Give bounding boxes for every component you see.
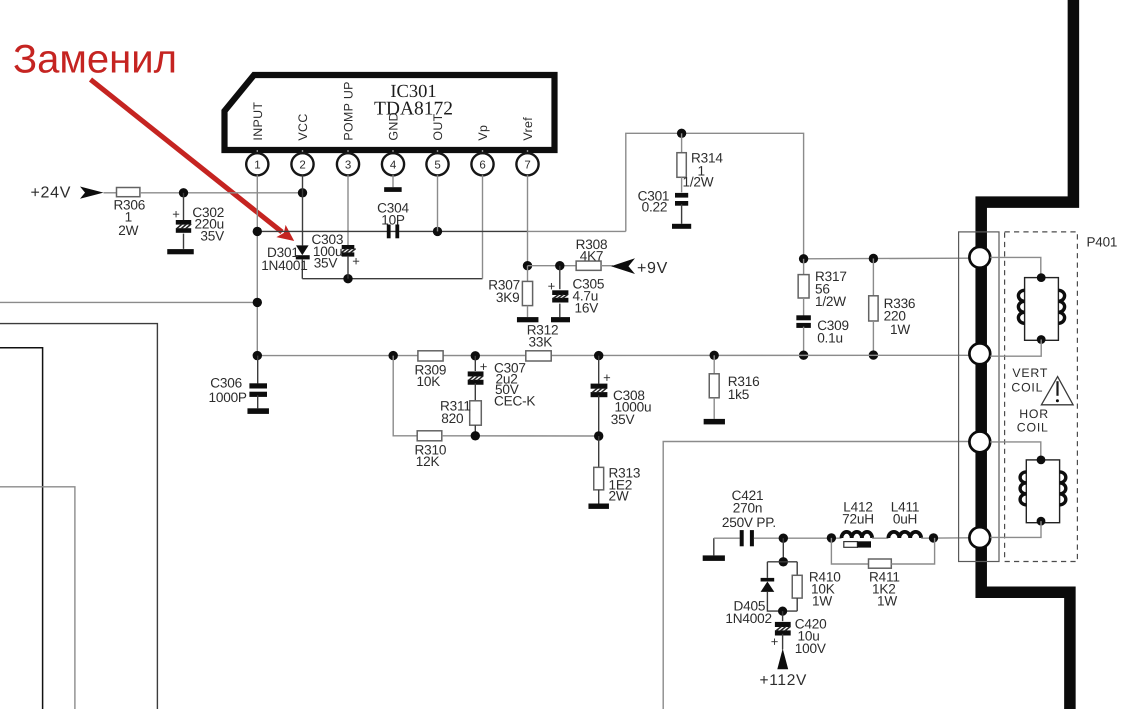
svg-text:1N4001: 1N4001 xyxy=(261,258,307,273)
svg-text:6: 6 xyxy=(479,160,485,172)
svg-text:+: + xyxy=(172,207,179,222)
wire pin2 VCC down to D301 xyxy=(302,175,304,245)
wire INPUT bus across xyxy=(257,230,527,232)
thick scan line top xyxy=(981,0,1073,709)
connector pin circle 3 xyxy=(969,432,990,453)
resistor R317 xyxy=(798,259,809,316)
ground left of C421 xyxy=(703,538,725,561)
capacitor C307 xyxy=(468,356,484,401)
svg-text:35V: 35V xyxy=(200,228,224,243)
resistor R308 xyxy=(576,261,601,270)
ground pin4 xyxy=(384,187,402,192)
node HOR coil bottom xyxy=(1037,517,1046,526)
resistor R310 xyxy=(417,431,442,441)
left partial box C xyxy=(0,487,75,709)
svg-text:0.1u: 0.1u xyxy=(817,330,843,345)
wire pin3 POMP UP down xyxy=(347,175,349,245)
svg-text:COIL: COIL xyxy=(1011,381,1043,395)
svg-text:C306: C306 xyxy=(210,376,242,391)
svg-text:Vp: Vp xyxy=(476,125,490,141)
svg-text:250V PP.: 250V PP. xyxy=(722,515,776,530)
svg-text:0.22: 0.22 xyxy=(642,199,668,214)
svg-text:+: + xyxy=(771,634,778,649)
connector pin circle 1 xyxy=(969,247,990,268)
node C303 bottom xyxy=(343,274,352,283)
connector pin circle 4 xyxy=(969,527,990,548)
node VERT coil top xyxy=(1037,273,1046,282)
capacitor C421 xyxy=(740,530,744,546)
svg-text:2W: 2W xyxy=(609,489,629,504)
resistor R312 xyxy=(526,351,551,361)
wire pin1 to VERT coil xyxy=(990,257,1041,277)
svg-text:R314: R314 xyxy=(691,151,723,166)
wire C421 to L412 xyxy=(754,537,842,539)
node C308 top xyxy=(594,351,603,360)
wire OUT up and across xyxy=(626,133,804,258)
svg-text:0uH: 0uH xyxy=(893,511,917,526)
node R311 bottom xyxy=(471,431,480,440)
ground below C306 xyxy=(247,408,269,414)
ground below R313 xyxy=(588,504,609,509)
node D405 branch xyxy=(779,534,788,543)
svg-text:1: 1 xyxy=(254,160,260,172)
wire lower divider bus xyxy=(393,356,417,436)
svg-text:+9V: +9V xyxy=(637,260,668,277)
svg-text:820: 820 xyxy=(441,411,464,426)
svg-text:2W: 2W xyxy=(118,223,138,238)
node R336 top xyxy=(869,254,878,263)
capacitor C305 xyxy=(552,266,568,317)
wire HOR coil to pin4 xyxy=(990,521,1041,537)
node VERT coil bottom xyxy=(1037,335,1046,344)
resistor R410 xyxy=(792,562,802,611)
svg-text:1k5: 1k5 xyxy=(728,387,749,402)
svg-text:5: 5 xyxy=(434,160,440,172)
svg-text:Заменил: Заменил xyxy=(13,38,177,82)
wire R306 to VCC node xyxy=(140,192,303,194)
svg-text:4K7: 4K7 xyxy=(580,248,604,263)
node R411 right branch xyxy=(929,533,938,542)
svg-text:10P: 10P xyxy=(381,212,405,227)
ground below C302 xyxy=(167,249,194,254)
node R317 top xyxy=(799,254,808,263)
svg-text:100V: 100V xyxy=(795,641,826,656)
svg-text:+: + xyxy=(480,359,487,374)
node HOR coil top xyxy=(1037,456,1046,465)
svg-text:POMP UP: POMP UP xyxy=(342,81,356,140)
yoke dashed box xyxy=(1005,232,1078,562)
pin 2 circle xyxy=(291,150,313,175)
svg-text:OUT: OUT xyxy=(431,113,445,140)
node main bus at pin1 xyxy=(253,351,262,360)
node pin1 bus tap xyxy=(253,227,262,236)
svg-text:35V: 35V xyxy=(611,412,635,427)
+9V input arrow xyxy=(611,258,635,274)
node R411 left branch xyxy=(827,533,836,542)
+24V input arrow xyxy=(80,187,104,199)
resistor R316 xyxy=(709,355,719,419)
svg-text:16V: 16V xyxy=(575,300,599,315)
svg-text:1000P: 1000P xyxy=(208,390,246,405)
svg-text:GND: GND xyxy=(387,112,401,141)
svg-text:33K: 33K xyxy=(529,334,553,349)
pin 3 circle xyxy=(337,150,359,175)
inductor L412 xyxy=(842,532,873,538)
wire pin3 to HOR coil xyxy=(990,442,1041,460)
wire D301/C303/Vp bottom bus xyxy=(302,278,482,280)
wire L412 to L411 xyxy=(872,537,888,539)
node C305 tap xyxy=(555,261,564,270)
resistor R314 xyxy=(677,133,686,192)
wire Vref to C305/R308 xyxy=(528,265,577,267)
L412 core bar xyxy=(844,541,871,547)
svg-text:1W: 1W xyxy=(812,593,832,608)
wire L411 to connector pin4 xyxy=(921,537,969,539)
wire R310 to C308 bottom xyxy=(442,435,599,437)
wire enclosure to HOR coil pin xyxy=(663,442,969,709)
left partial box B xyxy=(0,348,43,709)
svg-text:VERT: VERT xyxy=(1012,366,1048,380)
svg-text:72uH: 72uH xyxy=(842,511,874,526)
node Vref junction xyxy=(523,261,532,270)
svg-text:+24V: +24V xyxy=(31,185,72,202)
warning triangle xyxy=(1041,377,1073,405)
svg-text:3K9: 3K9 xyxy=(496,290,520,305)
wire R308 to +9V arrow xyxy=(601,265,613,267)
node R336 bottom xyxy=(869,350,878,359)
svg-text:+: + xyxy=(548,279,555,294)
resistor R313 xyxy=(594,436,604,504)
svg-text:Vref: Vref xyxy=(521,117,535,141)
wire main bus INPUT to connector pin2 xyxy=(257,354,969,356)
svg-text:1W: 1W xyxy=(877,593,897,608)
resistor R306 xyxy=(117,188,140,197)
wire C421 node down to D405 loop xyxy=(782,538,784,562)
svg-text:+: + xyxy=(603,370,610,385)
capacitor C308 xyxy=(591,356,608,436)
HOR coil xyxy=(1020,460,1066,523)
ground below C301 xyxy=(672,224,691,229)
ground below R316 xyxy=(704,419,725,425)
capacitor C301 xyxy=(675,193,688,224)
svg-text:+: + xyxy=(352,253,359,268)
svg-text:VCC: VCC xyxy=(296,113,310,140)
node C302 tap xyxy=(179,188,188,197)
VERT coil xyxy=(1018,278,1064,341)
pin 5 circle xyxy=(426,150,448,175)
node D405 loop bottom xyxy=(778,607,787,616)
diode D301 xyxy=(296,245,310,278)
node left wire join xyxy=(253,298,262,307)
left partial box A xyxy=(0,324,157,709)
svg-text:4: 4 xyxy=(390,160,397,172)
wire ground stub to C421 xyxy=(714,537,740,539)
wire top bus to connector pin1 xyxy=(804,257,970,260)
pin 7 circle xyxy=(516,150,538,175)
red annotation arrow xyxy=(91,80,295,242)
svg-text:COIL: COIL xyxy=(1017,421,1049,435)
svg-text:35V: 35V xyxy=(314,255,338,270)
node pin5 OUT tap xyxy=(433,227,442,236)
wire +24V to R306 xyxy=(104,192,117,194)
node C308 bottom xyxy=(594,431,603,440)
svg-text:7: 7 xyxy=(524,160,530,172)
connector thin box xyxy=(959,232,999,562)
capacitor C304 xyxy=(387,225,391,239)
svg-text:P401: P401 xyxy=(1087,235,1118,250)
capacitor C302 xyxy=(176,193,191,249)
ground below C305 xyxy=(551,317,570,322)
wire pin7 Vref down xyxy=(527,175,529,266)
wire VERT coil to pin2 xyxy=(990,340,1041,357)
svg-text:CEC-K: CEC-K xyxy=(494,394,535,409)
ground below R307 xyxy=(517,317,539,322)
node R314 tap xyxy=(677,129,686,138)
node divider left xyxy=(389,351,398,360)
wire pin4 GND stub xyxy=(392,175,394,187)
svg-text:12K: 12K xyxy=(416,454,440,469)
svg-text:HOR: HOR xyxy=(1019,407,1049,421)
svg-text:10K: 10K xyxy=(417,374,441,389)
resistor R307 xyxy=(522,266,532,317)
op-amp IC U1 IC301 TDA8172 body xyxy=(225,75,555,150)
svg-text:1/2W: 1/2W xyxy=(683,175,714,190)
capacitor C420 xyxy=(775,611,791,649)
svg-text:270n: 270n xyxy=(733,500,762,515)
diode D405 xyxy=(761,562,798,611)
svg-text:1N4002: 1N4002 xyxy=(725,611,771,626)
node C307 top xyxy=(471,351,480,360)
svg-text:2: 2 xyxy=(299,160,305,172)
node R316 top xyxy=(710,351,719,360)
svg-text:INPUT: INPUT xyxy=(251,102,265,141)
svg-text:3: 3 xyxy=(345,160,351,172)
node D405 loop top xyxy=(779,557,788,566)
connector pin circle 2 xyxy=(969,343,990,364)
wire from left edge xyxy=(0,301,257,303)
svg-text:+112V: +112V xyxy=(760,672,808,689)
capacitor C306 xyxy=(249,356,267,409)
wire pin5 OUT down xyxy=(437,175,439,231)
pin 6 circle xyxy=(471,150,493,175)
capacitor C303 xyxy=(341,245,356,279)
pin 1 circle xyxy=(246,150,268,175)
svg-text:1W: 1W xyxy=(890,322,910,337)
svg-text:1/2W: 1/2W xyxy=(815,294,846,309)
resistor R311 xyxy=(470,401,482,436)
capacitor C309 xyxy=(796,315,811,355)
node R317 bottom xyxy=(799,351,808,360)
+112V input arrow xyxy=(777,649,788,670)
resistor R336 xyxy=(869,259,878,356)
node VCC pin2 tap xyxy=(298,188,307,197)
resistor R309 xyxy=(418,351,443,361)
inductor L411 xyxy=(888,532,921,538)
pin 4 circle xyxy=(382,150,404,175)
wire pin1 INPUT down xyxy=(256,175,258,356)
resistor R411 bypass loop xyxy=(831,538,934,568)
